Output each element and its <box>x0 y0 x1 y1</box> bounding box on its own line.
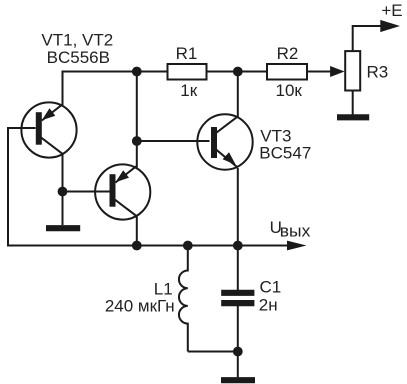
wire: VT2 emitter lead <box>136 141 138 169</box>
wire: VT2 collector lead <box>136 216 138 246</box>
svg-text:+E: +E <box>381 1 402 20</box>
svg-text:1к: 1к <box>180 81 197 100</box>
svg-text:R1: R1 <box>176 44 198 63</box>
wire: down to output ground <box>237 352 239 378</box>
wire: VT3 base lead <box>137 140 210 142</box>
wire: VT2 base lead <box>63 191 111 193</box>
capacitor C1 <box>221 293 254 303</box>
wire: L1 bottom to output junction <box>188 351 238 353</box>
node: output junction on bus <box>233 241 243 251</box>
wire: R1 right lead <box>207 71 238 73</box>
wire: VT1 collector lead <box>62 154 64 192</box>
wire: R3 top lead <box>353 26 382 51</box>
transistor VT3 (NPN) <box>197 114 252 169</box>
svg-text:R3: R3 <box>367 63 389 82</box>
arrowhead: +E supply arrow <box>380 20 400 32</box>
ground symbol at output <box>221 377 255 383</box>
arrowhead: R3 wiper arrow <box>330 66 345 77</box>
wire: C1 top lead <box>237 246 239 291</box>
svg-text:10к: 10к <box>276 81 303 100</box>
node C (junction VT2 emitter / VT3 base) <box>132 136 142 146</box>
arrowhead: output arrow <box>287 241 307 251</box>
svg-text:R2: R2 <box>277 44 299 63</box>
wire: VT3 collector lead <box>237 72 239 117</box>
inductor L1 <box>179 246 188 352</box>
label Uвых <box>270 218 311 240</box>
wire: R2 left lead <box>238 71 267 73</box>
svg-text:240 мкГн: 240 мкГн <box>105 296 175 315</box>
node D (VT1 collector / VT2 base) <box>58 187 68 197</box>
wire: VT1 base lead <box>8 127 36 129</box>
wire: node A down to node C <box>136 72 138 142</box>
svg-text:VT3: VT3 <box>260 127 291 146</box>
svg-text:BC556B: BC556B <box>47 48 110 67</box>
wire: VT1 emitter vertical <box>62 71 64 106</box>
node B (junction R1/R2/VT3 collector) <box>233 67 243 77</box>
wire: R1 left lead <box>137 71 168 73</box>
wire: R2 right lead to R3 wiper <box>307 71 331 73</box>
potentiometer R3 <box>345 51 360 90</box>
wire: top rail from VT1 emitter to node A <box>63 71 137 73</box>
resistor R1 <box>168 64 207 80</box>
svg-text:2н: 2н <box>259 295 278 314</box>
svg-text:C1: C1 <box>260 277 282 296</box>
svg-text:VT1, VT2: VT1, VT2 <box>41 31 113 50</box>
transistor VT2 (PNP) <box>95 164 150 219</box>
node: VT2 collector on bus <box>132 241 142 251</box>
wire: left feedback line <box>8 127 289 246</box>
resistor R2 <box>267 64 307 80</box>
wire: C1 bottom lead <box>237 306 239 352</box>
ground symbol at R3 <box>337 114 369 120</box>
transistor VT1 (PNP) <box>21 102 76 157</box>
wire: VT3 emitter lead <box>237 168 239 246</box>
node: L1/C1 bottom junction <box>233 347 243 357</box>
ground symbol at VT1 <box>46 225 80 231</box>
wire: R3 bottom lead <box>352 91 354 115</box>
wire: node D down to ground <box>62 192 64 226</box>
svg-text:вых: вых <box>280 221 311 240</box>
svg-text:BC547: BC547 <box>259 144 311 163</box>
node: L1 top on bus <box>183 241 193 251</box>
node A (junction top rail / R1) <box>132 67 142 77</box>
